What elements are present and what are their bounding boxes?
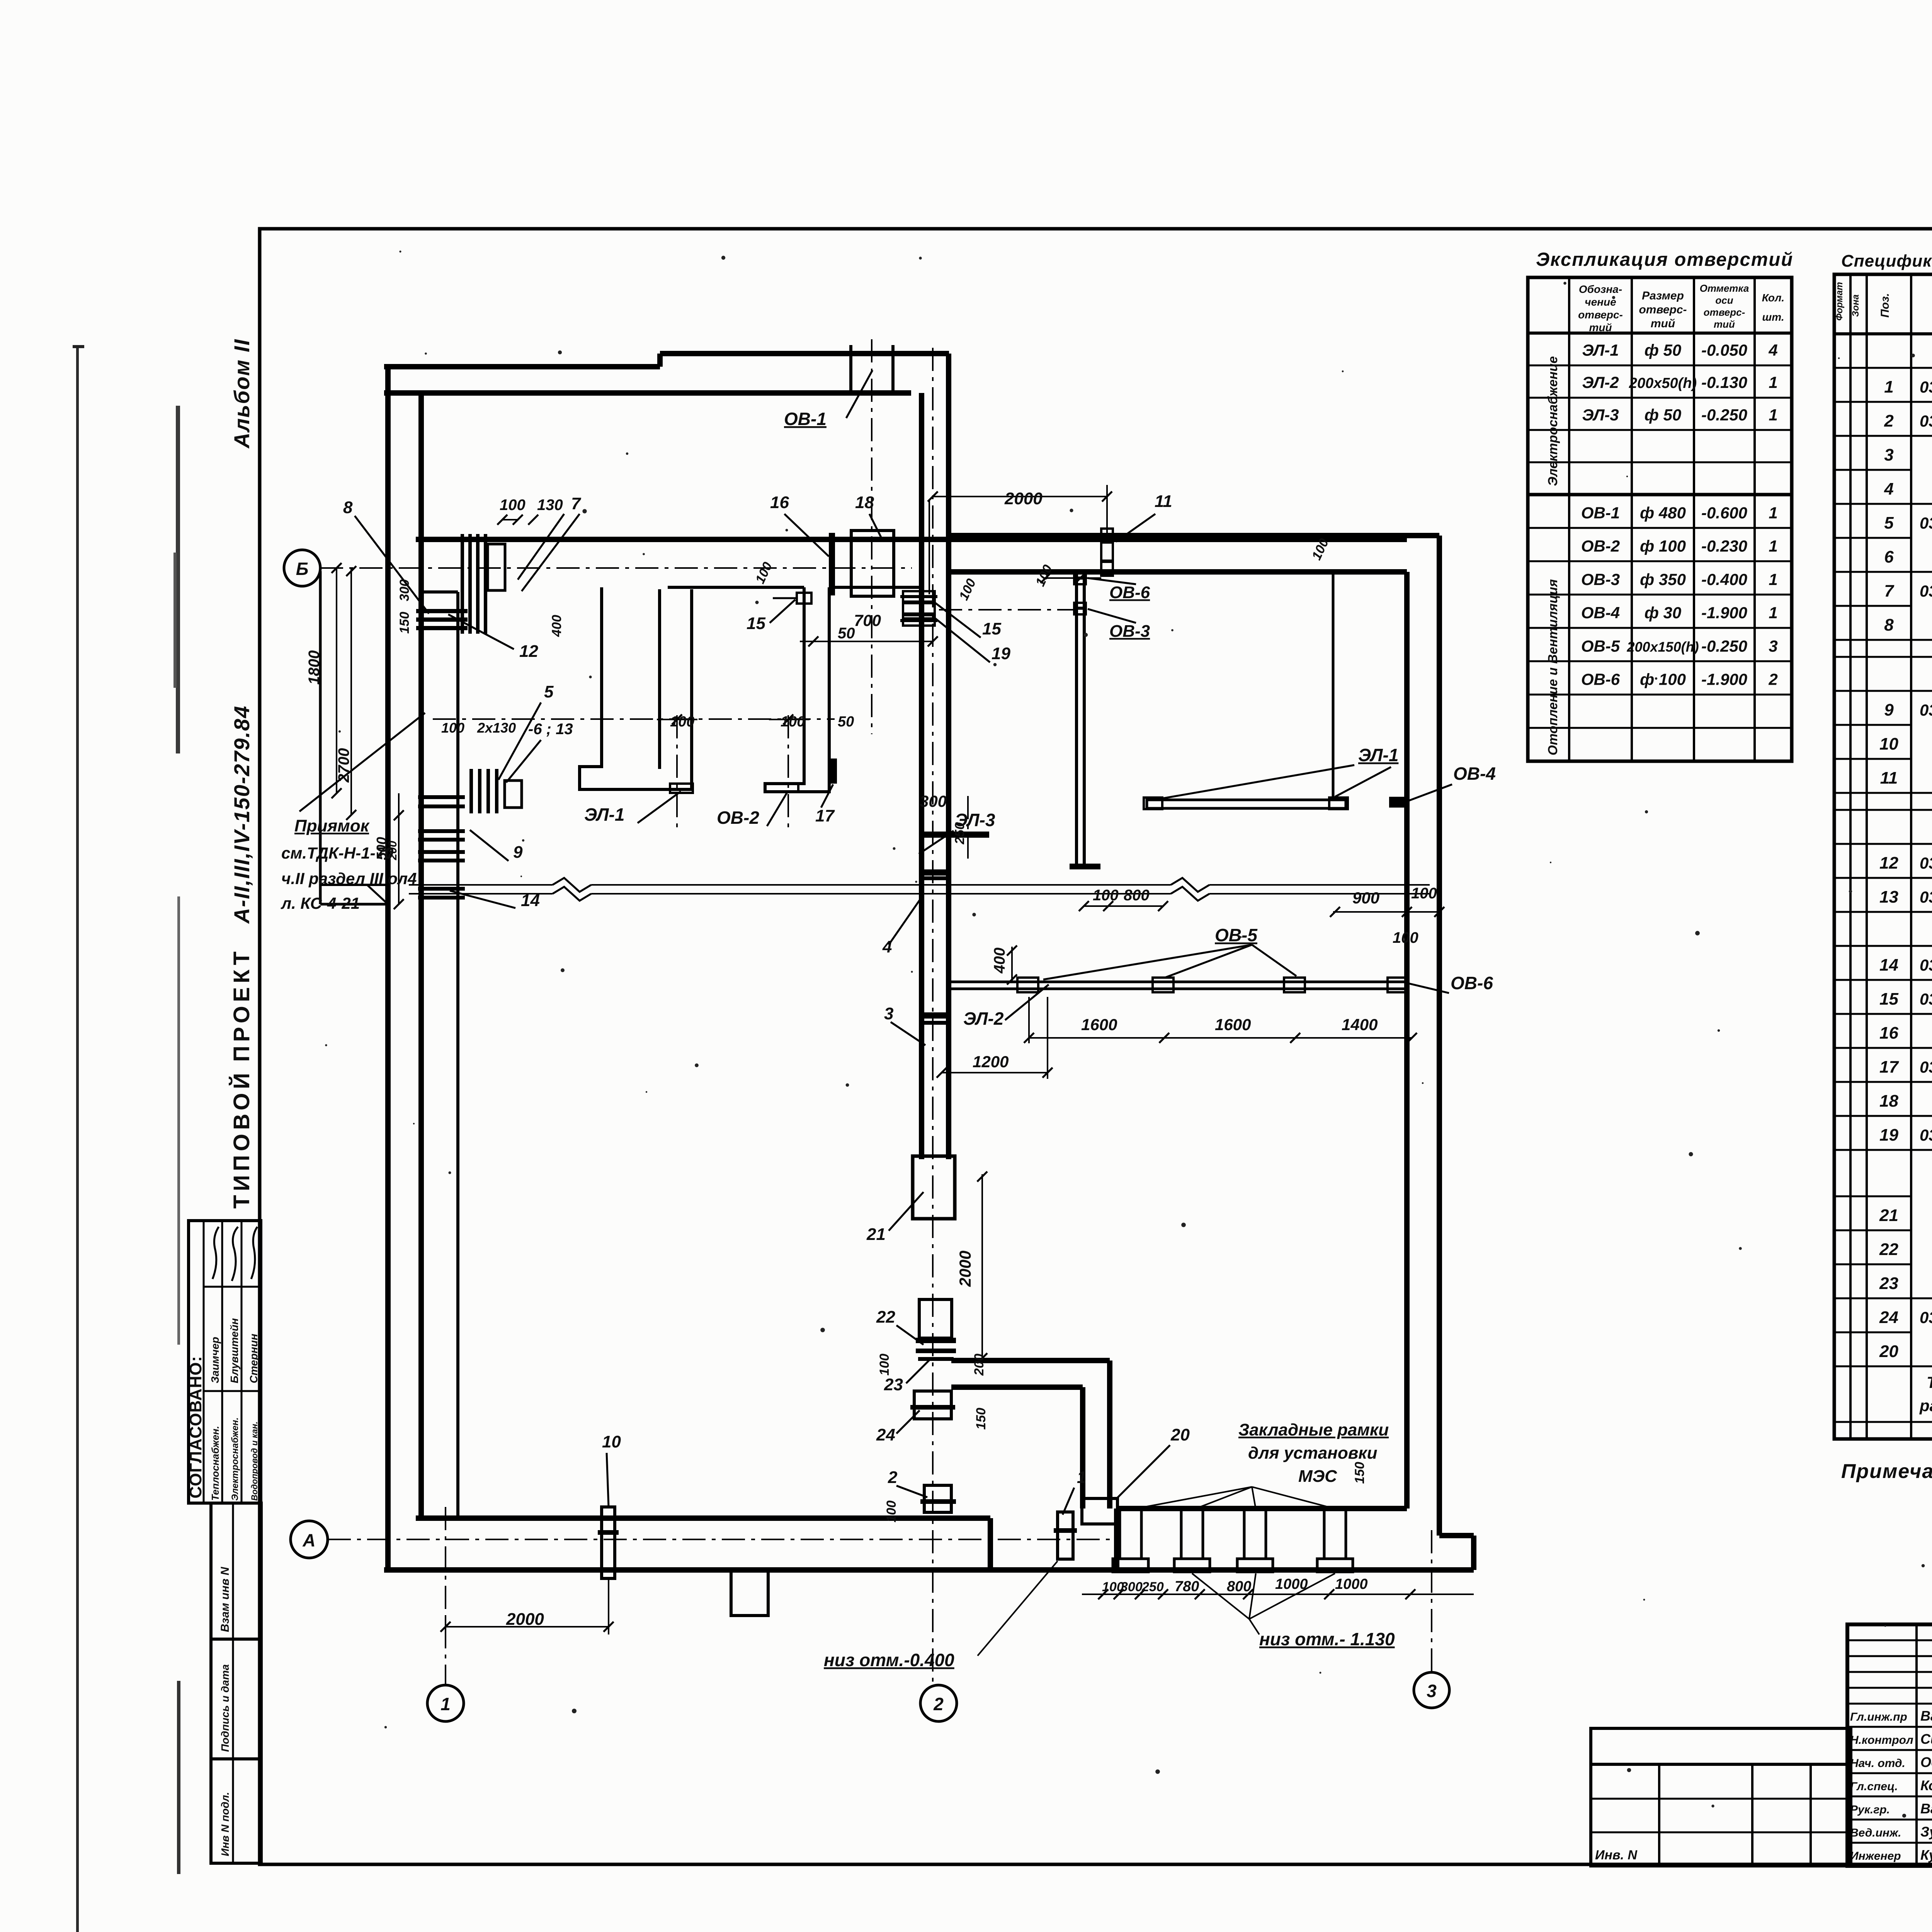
svg-text:19: 19 <box>992 644 1010 663</box>
svg-text:Н.контрол: Н.контрол <box>1850 1734 1913 1747</box>
svg-text:Формат: Формат <box>1834 282 1845 321</box>
svg-text:Вед.инж.: Вед.инж. <box>1850 1827 1901 1839</box>
svg-text:5: 5 <box>544 682 554 701</box>
svg-text:22: 22 <box>876 1308 895 1327</box>
svg-text:Обозна-: Обозна- <box>1579 283 1622 295</box>
svg-text:-1.900: -1.900 <box>1701 670 1747 689</box>
svg-text:Васильев: Васильев <box>1920 1708 1932 1724</box>
svg-text:03.005-5, Вып.2, Альбом 1: 03.005-5, Вып.2, Альбом 1 <box>1920 1308 1932 1327</box>
svg-text:для установки: для установки <box>1248 1444 1378 1463</box>
svg-text:12: 12 <box>519 642 538 661</box>
svg-text:ЭЛ-3: ЭЛ-3 <box>1582 406 1619 424</box>
svg-text:20: 20 <box>1879 1342 1898 1361</box>
svg-text:Приямок: Приямок <box>294 816 370 835</box>
svg-text:Подпись и дата: Подпись и дата <box>219 1664 231 1752</box>
svg-text:Закладные рамки: Закладные рамки <box>1238 1420 1389 1439</box>
svg-text:7: 7 <box>571 494 582 513</box>
svg-text:см.ТДК-Н-1-70: см.ТДК-Н-1-70 <box>281 844 393 862</box>
svg-text:300: 300 <box>1121 1580 1143 1594</box>
svg-text:10: 10 <box>1879 735 1898 753</box>
svg-text:1800: 1800 <box>306 650 323 685</box>
svg-text:Экспликация отверстий: Экспликация отверстий <box>1536 249 1793 270</box>
svg-text:9: 9 <box>1884 701 1894 719</box>
svg-text:-0.600: -0.600 <box>1701 503 1747 522</box>
svg-text:2000: 2000 <box>1004 489 1043 508</box>
svg-text:100: 100 <box>1393 929 1418 946</box>
svg-text:Альбом II: Альбом II <box>230 338 254 449</box>
svg-text:Отметка: Отметка <box>1700 282 1749 294</box>
svg-text:А-II,III,IV-150-279.84: А-II,III,IV-150-279.84 <box>230 705 254 924</box>
svg-text:250: 250 <box>952 822 967 845</box>
svg-text:300: 300 <box>397 579 412 601</box>
svg-text:22: 22 <box>1879 1240 1898 1259</box>
svg-text:17: 17 <box>815 806 835 825</box>
svg-text:800: 800 <box>1227 1578 1251 1595</box>
svg-text:Кореневский: Кореневский <box>1920 1777 1932 1793</box>
svg-text:1: 1 <box>1769 373 1777 391</box>
svg-text:2: 2 <box>1884 412 1894 430</box>
svg-text:раздел II, лист КС-II-38: раздел II, лист КС-II-38 <box>1919 1396 1932 1415</box>
svg-text:ф 480: ф 480 <box>1640 503 1686 522</box>
svg-text:ОВ-2: ОВ-2 <box>717 808 759 828</box>
svg-text:Рук.гр.: Рук.гр. <box>1850 1803 1890 1816</box>
svg-text:Силаева: Силаева <box>1920 1731 1932 1747</box>
svg-text:1: 1 <box>1769 406 1777 424</box>
svg-text:900: 900 <box>1352 889 1379 907</box>
svg-text:1000: 1000 <box>1335 1576 1368 1592</box>
svg-text:100: 100 <box>956 577 979 603</box>
svg-text:ОВ-4: ОВ-4 <box>1581 604 1620 622</box>
svg-text:400: 400 <box>991 947 1008 974</box>
svg-text:Зубова: Зубова <box>1920 1824 1932 1840</box>
svg-text:МЭС: МЭС <box>1298 1467 1337 1486</box>
svg-text:03.005-5, Вып.2, Альбом 12: 03.005-5, Вып.2, Альбом 12 <box>1920 582 1932 600</box>
svg-text:ОВ-2: ОВ-2 <box>1581 537 1620 555</box>
svg-text:отверс-: отверс- <box>1639 303 1687 316</box>
svg-text:12: 12 <box>1879 854 1898 872</box>
svg-text:Водопровод и кан.: Водопровод и кан. <box>250 1422 259 1501</box>
svg-text:2000: 2000 <box>956 1251 974 1287</box>
svg-text:23: 23 <box>884 1375 903 1394</box>
svg-text:-0.400: -0.400 <box>1701 570 1747 588</box>
svg-text:16: 16 <box>770 493 789 512</box>
svg-text:800: 800 <box>1124 887 1150 904</box>
svg-text:100: 100 <box>670 714 694 730</box>
svg-text:4: 4 <box>1884 480 1893 498</box>
svg-text:ТДК-Н-1-67, часть II,: ТДК-Н-1-67, часть II, <box>1927 1373 1932 1391</box>
svg-text:-0.130: -0.130 <box>1701 373 1747 391</box>
svg-text:Поз.: Поз. <box>1879 293 1891 318</box>
svg-text:ОВ-5: ОВ-5 <box>1215 925 1258 945</box>
svg-text:Одиноков: Одиноков <box>1920 1754 1932 1770</box>
svg-text:1: 1 <box>1769 570 1777 588</box>
svg-text:Стернин: Стернин <box>248 1334 260 1383</box>
svg-text:ОВ-4: ОВ-4 <box>1453 764 1496 784</box>
svg-text:150: 150 <box>1352 1462 1367 1484</box>
svg-text:50: 50 <box>838 714 854 730</box>
svg-text:10: 10 <box>602 1432 621 1451</box>
svg-text:ч.II раздел III ол4: ч.II раздел III ол4 <box>281 869 417 888</box>
svg-text:ОВ-3: ОВ-3 <box>1581 570 1620 588</box>
svg-text:СОГЛАСОВАНО:: СОГЛАСОВАНО: <box>186 1356 205 1498</box>
svg-text:24: 24 <box>876 1425 895 1444</box>
svg-text:-0.250: -0.250 <box>1701 406 1747 424</box>
svg-text:8: 8 <box>1884 616 1894 634</box>
svg-text:24: 24 <box>1879 1308 1898 1327</box>
svg-text:100: 100 <box>884 1500 899 1522</box>
svg-text:3: 3 <box>1769 637 1777 655</box>
svg-text:400: 400 <box>549 615 564 637</box>
svg-text:ОВ-1: ОВ-1 <box>784 409 827 429</box>
svg-text:ПРОЕКТ: ПРОЕКТ <box>229 947 254 1062</box>
svg-text:3: 3 <box>1427 1681 1437 1701</box>
svg-text:ф 30: ф 30 <box>1645 604 1682 622</box>
svg-text:-1.900: -1.900 <box>1701 604 1747 622</box>
svg-text:50: 50 <box>838 625 855 642</box>
svg-text:ф 50: ф 50 <box>1645 341 1682 359</box>
svg-text:Спецификация элементов к схе: Спецификация элементов к схеме расположе… <box>1841 252 1932 270</box>
svg-text:3: 3 <box>884 1004 893 1023</box>
svg-text:Гл.инж.пр: Гл.инж.пр <box>1850 1711 1907 1723</box>
svg-text:ф 100: ф 100 <box>1640 670 1686 689</box>
svg-text:16: 16 <box>1879 1024 1898 1043</box>
svg-text:1400: 1400 <box>1342 1015 1378 1034</box>
svg-text:тий: тий <box>1651 317 1675 330</box>
svg-text:отверс-: отверс- <box>1704 306 1745 318</box>
svg-text:18: 18 <box>855 493 874 512</box>
svg-text:ТИПОВОЙ: ТИПОВОЙ <box>229 1069 254 1209</box>
svg-text:03.005-5, Вып.2, Альбом 16: 03.005-5, Вып.2, Альбом 16 <box>1920 888 1932 906</box>
svg-text:А: А <box>302 1530 315 1550</box>
svg-text:03.005-5, Вып.2, Альбом 12: 03.005-5, Вып.2, Альбом 12 <box>1920 378 1932 396</box>
svg-text:200: 200 <box>972 1354 986 1376</box>
svg-text:15: 15 <box>1879 990 1898 1009</box>
svg-text:2: 2 <box>933 1694 944 1714</box>
svg-text:03.005-5, Вып.2, Альбом 16: 03.005-5, Вып.2, Альбом 16 <box>1920 514 1932 532</box>
svg-text:20: 20 <box>1170 1425 1190 1444</box>
svg-text:тий: тий <box>1589 321 1612 333</box>
svg-text:4: 4 <box>882 937 892 956</box>
svg-text:100: 100 <box>1033 563 1055 589</box>
svg-text:Инв. N: Инв. N <box>1595 1848 1638 1862</box>
svg-text:л. КС-4-21: л. КС-4-21 <box>281 894 360 912</box>
svg-text:100: 100 <box>781 714 805 730</box>
svg-text:Инв N подл.: Инв N подл. <box>219 1792 231 1856</box>
svg-text:03.005-5, Вып.2, Альбом 1: 03.005-5, Вып.2, Альбом 1 <box>1920 956 1932 974</box>
svg-text:11: 11 <box>1155 492 1172 511</box>
svg-text:8: 8 <box>343 498 353 517</box>
svg-text:оси: оси <box>1715 294 1733 306</box>
svg-text:ОВ-5: ОВ-5 <box>1581 637 1620 655</box>
svg-text:чение: чение <box>1585 296 1616 308</box>
svg-text:13: 13 <box>1879 888 1898 906</box>
svg-text:ОВ-3: ОВ-3 <box>1109 622 1150 641</box>
svg-text:2х130: 2х130 <box>477 720 516 736</box>
svg-text:низ отм.- 1.130: низ отм.- 1.130 <box>1259 1629 1395 1649</box>
svg-text:03.005-5, Вып.2, Альбом 16: 03.005-5, Вып.2, Альбом 16 <box>1920 412 1932 430</box>
svg-text:Электроснабжен.: Электроснабжен. <box>230 1417 240 1501</box>
svg-text:Инженер: Инженер <box>1850 1850 1901 1862</box>
svg-text:ф 350: ф 350 <box>1640 570 1686 588</box>
svg-text:700: 700 <box>854 611 881 629</box>
svg-text:150: 150 <box>397 612 412 634</box>
svg-text:03.005-5, Вып.2, Альбом 5: 03.005-5, Вып.2, Альбом 5 <box>1920 1126 1932 1144</box>
svg-text:Гл.спец.: Гл.спец. <box>1850 1780 1898 1793</box>
svg-text:Зона: Зона <box>1850 294 1861 317</box>
svg-text:03. 005-5, Вып.2, Альбом 5: 03. 005-5, Вып.2, Альбом 5 <box>1920 1058 1932 1076</box>
svg-text:03.005-5, Вып.2, Альбом 12: 03.005-5, Вып.2, Альбом 12 <box>1920 854 1932 872</box>
svg-text:-0.050: -0.050 <box>1701 341 1747 359</box>
svg-text:14: 14 <box>521 891 540 910</box>
svg-text:шт.: шт. <box>1762 311 1784 323</box>
svg-text:100: 100 <box>441 720 464 736</box>
svg-text:1: 1 <box>1884 378 1893 396</box>
svg-text:200х50(h): 200х50(h) <box>1629 375 1697 391</box>
svg-text:Примечания см. КЖ-12: Примечания см. КЖ-12 <box>1841 1460 1932 1483</box>
svg-text:Размер: Размер <box>1642 289 1684 302</box>
svg-text:03.005-5, Вып.2, Альбом 5: 03.005-5, Вып.2, Альбом 5 <box>1920 990 1932 1008</box>
svg-text:19: 19 <box>1879 1126 1898 1145</box>
svg-text:Взам инв N: Взам инв N <box>219 1566 231 1632</box>
svg-text:21: 21 <box>866 1225 886 1244</box>
svg-text:130: 130 <box>537 497 563 514</box>
svg-text:1: 1 <box>1769 604 1777 622</box>
svg-text:6: 6 <box>1884 548 1894 566</box>
svg-text:23: 23 <box>1879 1274 1898 1293</box>
svg-text:ОВ-6: ОВ-6 <box>1581 670 1620 689</box>
svg-text:2: 2 <box>888 1468 898 1487</box>
svg-text:ЭЛ-1: ЭЛ-1 <box>1358 745 1398 765</box>
svg-text:3: 3 <box>1884 446 1893 464</box>
svg-text:5: 5 <box>1884 514 1894 532</box>
svg-text:780: 780 <box>1175 1578 1199 1595</box>
svg-text:Теплоснабжен.: Теплоснабжен. <box>209 1426 221 1501</box>
svg-text:21: 21 <box>1879 1206 1898 1225</box>
svg-text:-0.230: -0.230 <box>1701 537 1747 555</box>
svg-text:1: 1 <box>1769 503 1777 522</box>
svg-text:ОВ-6: ОВ-6 <box>1451 973 1493 993</box>
svg-text:1600: 1600 <box>1215 1015 1251 1034</box>
svg-text:1: 1 <box>440 1694 451 1714</box>
svg-text:100: 100 <box>877 1354 892 1376</box>
svg-text:1: 1 <box>1077 1468 1086 1487</box>
svg-text:Заимчер: Заимчер <box>209 1337 221 1383</box>
svg-text:Отопление и Вентиляция: Отопление и Вентиляция <box>1546 579 1560 755</box>
svg-text:ЭЛ-1: ЭЛ-1 <box>1582 341 1619 359</box>
svg-text:Васильева: Васильева <box>1920 1801 1932 1816</box>
svg-text:1: 1 <box>1769 537 1777 555</box>
svg-text:18: 18 <box>1879 1092 1898 1111</box>
svg-text:100: 100 <box>1411 885 1437 902</box>
svg-text:ОВ-1: ОВ-1 <box>1581 503 1620 522</box>
svg-text:2: 2 <box>1768 670 1777 689</box>
svg-text:ЭЛ-2: ЭЛ-2 <box>963 1009 1004 1029</box>
svg-text:1000: 1000 <box>1275 1576 1308 1592</box>
svg-text:1600: 1600 <box>1081 1015 1117 1034</box>
svg-text:-6 ; 13: -6 ; 13 <box>528 721 573 738</box>
svg-text:1200: 1200 <box>973 1053 1009 1071</box>
svg-text:7: 7 <box>1884 582 1895 600</box>
svg-text:ЭЛ-1: ЭЛ-1 <box>584 804 624 825</box>
svg-text:14: 14 <box>1879 956 1898 975</box>
svg-text:100: 100 <box>753 560 775 586</box>
svg-text:ОВ-6: ОВ-6 <box>1109 583 1150 602</box>
svg-text:11: 11 <box>1880 769 1898 787</box>
svg-text:Кубышкина: Кубышкина <box>1920 1847 1932 1863</box>
svg-text:Электроснабжение: Электроснабжение <box>1546 356 1560 486</box>
svg-text:150: 150 <box>974 1408 988 1430</box>
svg-text:ф 50: ф 50 <box>1645 406 1682 424</box>
svg-text:2000: 2000 <box>506 1610 544 1629</box>
svg-text:ф 100: ф 100 <box>1640 537 1686 555</box>
svg-text:Блувштейн: Блувштейн <box>228 1318 240 1383</box>
svg-text:отверс-: отверс- <box>1578 309 1623 321</box>
svg-text:тий: тий <box>1714 318 1735 330</box>
svg-text:15: 15 <box>982 619 1001 638</box>
svg-text:250: 250 <box>1141 1580 1164 1594</box>
svg-text:17: 17 <box>1879 1058 1899 1077</box>
svg-text:300: 300 <box>920 792 947 810</box>
svg-text:200х150(h): 200х150(h) <box>1626 639 1699 655</box>
svg-text:Б: Б <box>296 559 309 579</box>
svg-text:9: 9 <box>513 843 523 862</box>
svg-text:-0.250: -0.250 <box>1701 637 1747 655</box>
svg-text:Нач. отд.: Нач. отд. <box>1850 1757 1905 1770</box>
svg-text:100: 100 <box>500 497 526 514</box>
svg-text:низ отм.-0.400: низ отм.-0.400 <box>824 1650 954 1670</box>
svg-text:15: 15 <box>747 614 765 633</box>
svg-text:ЭЛ-2: ЭЛ-2 <box>1582 373 1619 391</box>
svg-text:Кол.: Кол. <box>1762 292 1784 304</box>
svg-text:100: 100 <box>1093 887 1119 904</box>
svg-text:03.005-5, Вып.2, Альбом 1: 03.005-5, Вып.2, Альбом 1 <box>1920 701 1932 719</box>
svg-text:4: 4 <box>1768 341 1777 359</box>
